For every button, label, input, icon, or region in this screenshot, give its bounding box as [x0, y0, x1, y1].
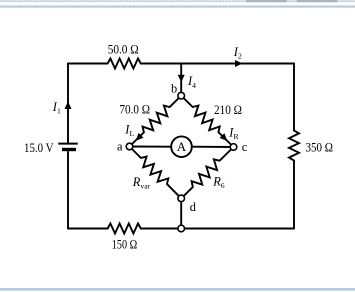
- battery 15.0 V: [58, 144, 77, 152]
- wire: node a to ammeter: [130, 146, 172, 148]
- svg-text:A: A: [177, 139, 187, 154]
- arrow IL toward node a: [136, 133, 144, 141]
- node d: [178, 195, 185, 202]
- wire: bottom with 150 ohm resistor: [68, 224, 294, 234]
- svg-text:c: c: [242, 140, 248, 154]
- svg-text:210 Ω: 210 Ω: [214, 103, 242, 117]
- svg-text:a: a: [117, 139, 123, 153]
- node b: [178, 92, 185, 99]
- wire: left side below battery: [67, 151, 69, 229]
- arrow I2 rightward on top wire: [235, 60, 243, 67]
- wire: top junction down to node b: [180, 64, 182, 96]
- resistor Rvar (a-d arm): [130, 147, 182, 199]
- wire: right side with 350 ohm resistor: [289, 63, 299, 230]
- wire: node d down to bottom junction: [180, 198, 182, 228]
- svg-text:15.0 V: 15.0 V: [24, 141, 54, 155]
- wire: top left with 50 ohm resistor: [68, 59, 181, 69]
- resistor R6 (d-c arm): [181, 147, 233, 198]
- svg-text:b: b: [171, 81, 177, 95]
- svg-text:d: d: [190, 200, 197, 214]
- node: bottom junction: [178, 225, 185, 232]
- resistor 210 ohm (b-c arm): [181, 96, 233, 147]
- svg-text:350 Ω: 350 Ω: [306, 140, 334, 154]
- node a: [126, 143, 133, 150]
- galvanometer A: [171, 136, 192, 157]
- wire: ammeter to node c: [192, 146, 234, 148]
- arrow I4 downward into node b: [178, 75, 185, 83]
- svg-text:150 Ω: 150 Ω: [112, 237, 137, 251]
- wire: top right segment: [181, 63, 294, 65]
- svg-text:50.0 Ω: 50.0 Ω: [108, 43, 139, 57]
- wire: left side above battery: [67, 63, 69, 144]
- arrow I1 upward on left wire: [65, 101, 72, 109]
- arrow IR toward node c: [220, 133, 228, 141]
- svg-text:70.0 Ω: 70.0 Ω: [120, 103, 151, 117]
- resistor 70.0 ohm (b-a arm): [130, 96, 182, 147]
- node c: [230, 144, 237, 151]
